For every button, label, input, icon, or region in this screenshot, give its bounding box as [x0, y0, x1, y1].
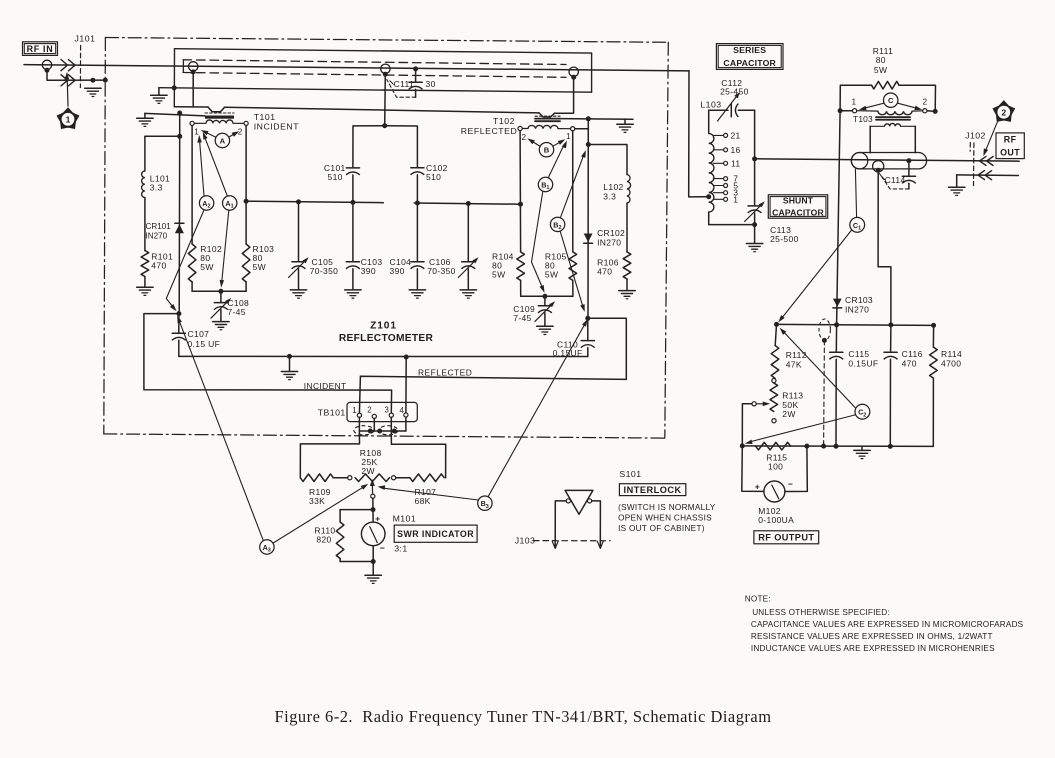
transformer T102 core — [535, 116, 560, 121]
svg-text:T103: T103 — [853, 114, 873, 124]
wire T102 pin1 to CR102 branch — [575, 128, 588, 130]
RF OUT boxed label — [996, 133, 1024, 159]
svg-text:SHUNT: SHUNT — [783, 196, 814, 206]
junction dot C115 top — [834, 322, 839, 327]
inductor L102 — [627, 175, 631, 204]
diode CR101 — [175, 136, 184, 313]
wire T103 primary leads — [840, 110, 935, 113]
svg-text:1: 1 — [546, 185, 549, 191]
label R105 — [545, 251, 567, 279]
svg-text:47K: 47K — [786, 359, 802, 369]
probe pickup loop on center conductor — [381, 64, 390, 73]
ground on bottom bus — [281, 356, 297, 379]
svg-text:470: 470 — [902, 359, 917, 369]
terminal T102 secondary pin2 — [518, 126, 522, 130]
terminal TB101-2 — [372, 414, 376, 418]
capacitor C115 — [829, 325, 843, 446]
svg-text:5W: 5W — [200, 262, 213, 272]
junction dot T103 pin2 node — [933, 109, 938, 114]
svg-text:16: 16 — [731, 145, 741, 155]
wire detector common bottom bus — [179, 355, 588, 357]
resistor R111 with loop — [840, 81, 935, 111]
tap lead 5 of L103 — [713, 184, 727, 188]
pointer A1 to pin1 — [203, 132, 228, 196]
terminal TB101-3 — [389, 413, 393, 417]
label R107 — [415, 487, 437, 506]
svg-text:510: 510 — [426, 172, 441, 182]
junction dot C109 node — [542, 294, 547, 299]
svg-text:RF IN: RF IN — [27, 44, 54, 54]
potentiometer R108 — [355, 474, 389, 482]
pointer C2 to ground bus — [745, 415, 855, 444]
svg-text:IN270: IN270 — [845, 304, 869, 314]
junction dot bottom bus ground — [287, 354, 292, 359]
svg-text:RF: RF — [1004, 135, 1017, 145]
junction dot C101-C102 bracket — [382, 123, 387, 128]
pointer B to pin2 — [527, 138, 540, 146]
junction dot T101 loop — [191, 69, 196, 74]
T102 pickup loop on center conductor — [569, 67, 578, 76]
connector J102 dashed tick — [969, 143, 971, 152]
label R112 — [786, 350, 807, 369]
ground below C104 — [409, 290, 425, 298]
wire T102 detector bottom bar — [521, 295, 573, 297]
connector J102 interface dashed line — [973, 143, 975, 186]
resistor R102 — [188, 244, 196, 282]
pin number 1 of T102 — [566, 132, 571, 141]
wire center conductor main line — [24, 65, 689, 71]
svg-text:IN270: IN270 — [146, 232, 168, 241]
pointer B3 to wiper — [378, 485, 479, 500]
wire C114 node feed to CR103 bus — [878, 170, 891, 325]
svg-text:TB101: TB101 — [318, 407, 346, 417]
Z101 enclosure dash-dot bottom edge — [104, 434, 665, 438]
svg-text:L103: L103 — [700, 99, 721, 109]
svg-text:510: 510 — [328, 172, 343, 182]
svg-text:2: 2 — [522, 133, 527, 142]
pin number 2 of T102 — [522, 133, 527, 142]
junction dot shielded lead bottom — [821, 444, 826, 449]
pointer B2 to CR102 top — [560, 150, 585, 218]
coax outer conductor bottom (ground line) — [159, 88, 592, 93]
label C111 value — [390, 79, 436, 89]
svg-text:5W: 5W — [874, 65, 887, 75]
svg-text:C114: C114 — [885, 175, 906, 185]
svg-text:0.15 UF: 0.15 UF — [188, 339, 221, 349]
ground below C106 — [460, 290, 476, 298]
svg-text:0-100UA: 0-100UA — [758, 515, 794, 525]
transformer T101 core — [205, 113, 234, 119]
label R115 — [766, 453, 787, 472]
wire wiper to meter node — [372, 498, 374, 509]
label C101 — [324, 163, 346, 182]
ground on output bus — [854, 446, 870, 458]
terminal T103 pin1 — [853, 109, 857, 113]
terminal T101 secondary pin2 — [244, 121, 248, 125]
wire T103 secondary left lead — [869, 126, 871, 152]
coax outer left edge down to T101 primary — [173, 49, 175, 107]
resistor R110 — [336, 522, 344, 559]
svg-text:2: 2 — [559, 225, 562, 231]
label C106 — [427, 257, 456, 276]
label TB101 — [318, 407, 346, 417]
svg-text:2W: 2W — [782, 409, 795, 419]
note block — [745, 595, 1024, 653]
terminal board TB101 outline — [347, 402, 417, 421]
wire center conductor to L103 — [689, 71, 707, 197]
capacitor C112 variable series — [718, 92, 755, 159]
wire TB101-3 to R107 — [391, 431, 445, 478]
svg-text:NOTE:: NOTE: — [745, 595, 771, 604]
capacitor C116 — [884, 325, 898, 446]
wire R102 bottom — [191, 282, 193, 291]
label C114 — [880, 175, 905, 185]
label R106 — [597, 257, 619, 276]
test point B callout — [539, 143, 553, 157]
svg-text:1: 1 — [858, 225, 861, 231]
svg-text:−: − — [380, 543, 385, 553]
svg-text:J103: J103 — [515, 536, 536, 546]
junction dot coax bottom left — [172, 85, 177, 90]
svg-text:470: 470 — [151, 260, 166, 270]
svg-text:2: 2 — [208, 204, 211, 210]
junction dot J101 shield to Z101 edge — [103, 78, 108, 83]
wire CR103 branch — [837, 111, 841, 325]
svg-text:CR101: CR101 — [146, 222, 172, 231]
wire J101 shield branch — [47, 70, 105, 80]
terminal R113 wiper — [752, 402, 756, 406]
svg-text:SERIES: SERIES — [733, 45, 766, 55]
label R104 — [492, 251, 514, 279]
svg-text:7-45: 7-45 — [227, 307, 245, 317]
pointer B1 to pin1 — [548, 141, 567, 178]
wire INCIDENT output — [144, 314, 392, 414]
capacitor C111 — [409, 69, 423, 97]
pin number 1 of T103 — [852, 97, 857, 106]
test point B1 callout — [538, 177, 552, 191]
junction dots on jumper bar — [368, 429, 397, 434]
wire R103 bottom — [245, 282, 247, 291]
svg-text:CAPACITOR: CAPACITOR — [723, 58, 776, 68]
label CR103 — [845, 295, 873, 314]
wire R110 bottom — [340, 559, 373, 562]
wire main output line — [755, 159, 1020, 161]
wire probe drop — [384, 74, 387, 126]
wire R105 branch — [572, 131, 574, 252]
svg-text:INCIDENT: INCIDENT — [304, 381, 347, 391]
svg-text:REFLECTOMETER: REFLECTOMETER — [339, 333, 434, 344]
svg-text:3: 3 — [268, 548, 271, 554]
label R113 — [782, 391, 803, 420]
pointer C1 to R112 node — [778, 230, 851, 323]
ground at coax outer left — [151, 88, 167, 104]
wire to R110 — [340, 510, 373, 522]
label C110 — [553, 339, 583, 358]
capacitor C104 — [411, 203, 425, 289]
wire shielded lead dashed — [823, 340, 826, 446]
pointer A to pin2 — [229, 131, 239, 137]
resistor R109 — [300, 474, 347, 482]
svg-text:(SWITCH IS NORMALLY: (SWITCH IS NORMALLY — [618, 503, 716, 512]
label R109 — [309, 487, 331, 506]
capacitor C109 variable — [535, 296, 555, 325]
junction dot meter top node — [371, 507, 376, 512]
svg-text:820: 820 — [316, 535, 331, 545]
connector J101 interface dashed line — [79, 46, 81, 88]
ground below C103 — [345, 290, 361, 298]
test point A3 callout — [260, 540, 274, 554]
junction dot R114 top — [931, 323, 936, 328]
label L102 — [603, 182, 623, 202]
wire J101 pickup loop circle — [42, 60, 51, 69]
transformer T103 core — [876, 117, 910, 120]
svg-text:33K: 33K — [309, 496, 325, 506]
svg-text:+: + — [375, 514, 380, 524]
wire R113 wiper to ground bus — [742, 404, 752, 446]
wire C114 dashed hookup — [880, 174, 909, 189]
resistor R114 — [930, 325, 938, 446]
capacitor C103 — [346, 202, 360, 289]
switch S101 triangle — [565, 490, 593, 514]
pointer B to pin1 — [553, 139, 565, 146]
svg-text:REFLECTED: REFLECTED — [418, 367, 472, 377]
wire CR101 upper link — [179, 113, 181, 136]
svg-text:30: 30 — [426, 79, 436, 89]
svg-text:REFLECTED: REFLECTED — [461, 126, 518, 136]
ground below C113 — [746, 225, 762, 252]
pointer A2 to pin1 — [197, 135, 204, 196]
wire detector bottom bar — [192, 290, 246, 292]
label CR102 — [597, 228, 625, 247]
pointer A3 to wiper — [273, 484, 368, 543]
svg-text:C107: C107 — [188, 329, 210, 339]
wire output ground bus — [742, 445, 933, 448]
label R103 — [253, 244, 275, 272]
svg-text:J102: J102 — [965, 131, 986, 141]
junction dot ground bus left — [740, 443, 745, 448]
connector J102 chevrons center — [980, 156, 994, 165]
junction dot bus at C102/C104 — [415, 201, 420, 206]
svg-text:C116: C116 — [902, 349, 923, 359]
svg-text:RESISTANCE VALUES ARE EXPRESSE: RESISTANCE VALUES ARE EXPRESSED IN OHMS,… — [751, 632, 993, 641]
pointer star2 to J102 — [983, 121, 997, 156]
junction dot shielded lead — [822, 338, 827, 343]
svg-text:CAPACITANCE VALUES ARE EXPRESS: CAPACITANCE VALUES ARE EXPRESSED IN MICR… — [751, 620, 1024, 629]
wire REFLECTED output — [359, 318, 626, 413]
terminal R108 wiper — [371, 494, 375, 498]
capacitor C105 variable — [289, 202, 309, 289]
svg-text:SWR INDICATOR: SWR INDICATOR — [397, 529, 474, 539]
wire meter top lead — [372, 510, 374, 522]
resistor R107 — [396, 474, 445, 482]
svg-text:3:1: 3:1 — [394, 544, 407, 554]
junction dot shield to CR102 branch — [586, 116, 591, 121]
svg-text:1: 1 — [566, 132, 571, 141]
junction dot probe loop — [383, 72, 388, 77]
test point A2 callout — [199, 196, 213, 210]
diode CR102 — [584, 119, 593, 318]
svg-text:IN270: IN270 — [597, 237, 621, 247]
terminal R112-R113 junction — [772, 379, 776, 383]
pin number 2 of T101 — [238, 128, 243, 137]
svg-text:3.3: 3.3 — [150, 183, 163, 193]
terminal T101 secondary pin1 — [190, 121, 194, 125]
terminal T102 secondary pin1 — [571, 127, 575, 131]
resistor R106 — [623, 252, 631, 279]
tap lead 11 of L103 — [713, 161, 727, 165]
junction dot R112 node — [774, 322, 779, 327]
terminal TB101-4 — [404, 413, 408, 417]
label R114 — [941, 349, 962, 369]
label R111 — [873, 46, 893, 75]
terminal S101 right contact — [588, 499, 592, 503]
test point A callout — [215, 133, 229, 147]
wire output node bus — [777, 324, 934, 325]
label T102 REFLECTED — [461, 116, 518, 136]
pointer A3 to C107 node — [177, 315, 263, 540]
inductor L101 — [142, 171, 145, 198]
svg-text:80: 80 — [876, 55, 886, 65]
junction dot C107 node — [176, 311, 181, 316]
svg-text:2: 2 — [923, 97, 928, 106]
resistor R101 — [141, 251, 149, 277]
wire R105 bottom — [572, 280, 574, 296]
RF IN boxed label — [23, 42, 58, 56]
svg-text:Z101: Z101 — [370, 321, 397, 332]
junction dot under J101 loop — [45, 68, 50, 73]
transformer T102 secondary winding — [522, 125, 570, 128]
junction dot bus at C105 — [296, 199, 301, 204]
svg-text:0.15UF: 0.15UF — [848, 359, 878, 369]
resistor R103 — [242, 244, 250, 282]
test point star 1 — [57, 108, 78, 128]
svg-text:B: B — [544, 146, 550, 155]
svg-text:0.15UF: 0.15UF — [553, 348, 583, 358]
svg-text:25-450: 25-450 — [720, 87, 749, 97]
svg-text:70-350: 70-350 — [310, 266, 339, 276]
svg-text:3: 3 — [385, 405, 389, 414]
pointer C to pin2 — [898, 103, 923, 110]
SWR INDICATOR boxed label — [394, 525, 477, 542]
inductor L103 — [709, 134, 714, 213]
wire bracket to C102 — [385, 126, 418, 168]
capacitor C106 variable — [458, 204, 478, 289]
wire TB101 jumper bar — [359, 417, 406, 431]
wire M102 right lead — [785, 446, 807, 491]
svg-text:L102: L102 — [603, 182, 623, 192]
label R101 — [151, 251, 173, 270]
tap lead 7 of L103 — [713, 177, 727, 181]
terminal R108 left — [348, 476, 352, 480]
Z101 reflectometer name — [339, 321, 434, 344]
tap lead 1 of L103 — [713, 197, 727, 201]
label C103 — [361, 257, 383, 276]
pin number 1 of T101 — [194, 128, 199, 137]
svg-text:390: 390 — [390, 266, 405, 276]
label REFLECTED — [418, 367, 472, 377]
svg-text:5W: 5W — [492, 269, 505, 279]
svg-text:UNLESS OTHERWISE SPECIFIED:: UNLESS OTHERWISE SPECIFIED: — [752, 608, 890, 617]
resistor R104 — [517, 252, 525, 281]
meter M102 — [764, 481, 785, 502]
wire R104 branch — [519, 131, 522, 252]
junction dot shield line to CR101 branch — [177, 111, 182, 116]
junction dot M102 right riser — [804, 444, 809, 449]
svg-text:390: 390 — [361, 266, 376, 276]
svg-text:5W: 5W — [545, 269, 558, 279]
resistor R115 — [756, 442, 791, 450]
pointer C2 to R112 node — [780, 328, 856, 408]
junction dot L102 branch — [586, 142, 591, 147]
svg-text:C: C — [888, 96, 894, 105]
connector J103 dashed line — [534, 540, 611, 542]
wire reflected-side bus — [414, 203, 520, 204]
label T103 — [853, 114, 873, 124]
resistor R112 — [771, 346, 779, 379]
label C113 — [770, 225, 799, 244]
wire T102 shield to ground — [560, 118, 633, 121]
ground below R106 — [619, 291, 635, 299]
INTERLOCK boxed label — [619, 484, 685, 496]
svg-text:1: 1 — [733, 194, 738, 204]
label L101 — [150, 174, 170, 193]
wire R104 bottom — [520, 280, 522, 296]
svg-text:68K: 68K — [415, 496, 431, 506]
junction dot bus at R103 — [244, 199, 249, 204]
junction dot C114 top — [906, 158, 911, 163]
coax outer conductor right edge — [591, 53, 593, 92]
junction dot C111 tap — [413, 66, 418, 71]
pointer A to pin1 — [201, 130, 216, 137]
wire T101-T102 primary run — [174, 77, 573, 117]
Z101 enclosure dash-dot left edge — [104, 38, 106, 434]
ground below C105 — [290, 290, 306, 298]
transformer T103 primary winding — [857, 111, 923, 115]
label C112 — [720, 78, 749, 97]
label INCIDENT — [304, 381, 347, 391]
ground below R101 — [137, 287, 153, 295]
svg-text:2W: 2W — [361, 466, 374, 476]
svg-text:+: + — [755, 482, 760, 492]
capacitor C107 — [172, 314, 186, 357]
ground G2 left of T101 — [137, 113, 153, 126]
wiper arrow of R108 — [370, 479, 375, 494]
label T101 INCIDENT — [254, 112, 300, 131]
wire meter bottom lead — [372, 546, 374, 562]
svg-text:4700: 4700 — [941, 359, 961, 369]
svg-text:C111: C111 — [394, 79, 414, 89]
label S101 — [619, 469, 641, 479]
svg-text:A: A — [220, 137, 226, 146]
pointer B1 to C109 node — [532, 191, 545, 292]
junction dot balun tap — [876, 168, 881, 173]
junction dot bottom bus to TB101-4 — [404, 355, 409, 360]
svg-text:3: 3 — [486, 504, 489, 510]
coaxial balun cylinder — [851, 153, 926, 169]
label C107 — [188, 329, 221, 349]
terminal T103 pin2 — [923, 109, 927, 113]
diode CR103 — [833, 299, 842, 308]
label R110 — [314, 526, 335, 545]
resistor R105 — [569, 252, 577, 281]
connector J101 chevrons shield — [61, 75, 75, 86]
meter M101 — [361, 522, 385, 546]
wire R103 branch — [245, 126, 247, 245]
test point C1 callout and leads — [850, 169, 865, 232]
label M101 — [393, 514, 417, 524]
label 3:1 — [394, 544, 407, 554]
wire TB101-1 to R109 — [300, 431, 359, 478]
